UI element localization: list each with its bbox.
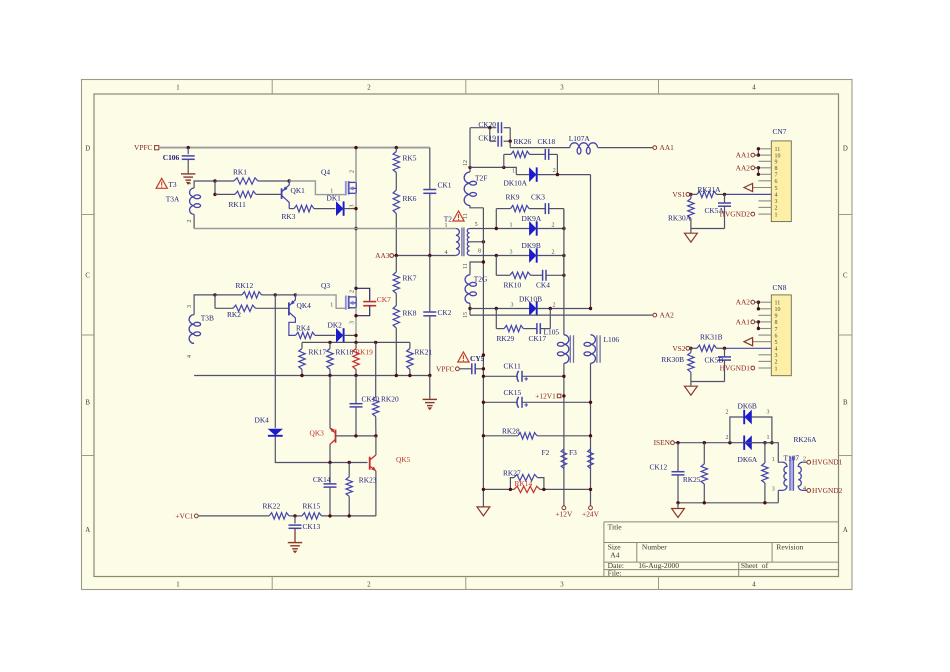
svg-text:VS1: VS1 [672, 190, 685, 199]
svg-text:2: 2 [553, 302, 556, 308]
wire T3A top [194, 181, 215, 188]
svg-text:2: 2 [726, 435, 729, 441]
inductor L107A [570, 143, 598, 148]
capacitor CK11 [483, 375, 517, 377]
svg-text:5: 5 [775, 340, 778, 346]
svg-text:F2: F2 [542, 448, 550, 457]
svg-text:1: 1 [512, 169, 515, 175]
svg-text:Revision: Revision [776, 542, 803, 551]
node QK3 collector [328, 461, 331, 464]
svg-text:7: 7 [775, 173, 778, 179]
svg-text:RK20: RK20 [381, 394, 399, 403]
node DK6A cathode RK26A [763, 441, 766, 444]
transformer T2 secondary [467, 229, 469, 256]
svg-text:Title: Title [608, 523, 623, 532]
node CK11 right [562, 375, 565, 378]
node RK18 bottom [328, 374, 331, 377]
resistor RK25 [703, 443, 705, 464]
svg-text:A4: A4 [610, 551, 619, 560]
node DK6B branch [728, 441, 731, 444]
node DK9A anode snubber [495, 227, 498, 230]
svg-text:1: 1 [510, 223, 513, 229]
wire Q4 source chain [355, 193, 357, 296]
snubber RK29 CK17 [495, 309, 497, 329]
svg-text:RK30B: RK30B [661, 355, 684, 364]
wire ISEN bottom rail [678, 502, 778, 504]
port HVGND1 T107 [807, 460, 811, 464]
wire QK5 emitter down [375, 471, 377, 516]
svg-text:+12V1: +12V1 [535, 391, 556, 400]
node CK15 left [482, 401, 485, 404]
port +VC1 [194, 514, 198, 518]
svg-text:C: C [843, 273, 848, 280]
wire ground rail [194, 375, 430, 377]
node bus mid [482, 353, 485, 356]
capacitor CK1 [429, 148, 431, 190]
warning triangle T2 [453, 211, 464, 221]
svg-text:1: 1 [187, 182, 193, 185]
wire CN8 tie 8-7 [757, 322, 759, 329]
diode DK9A [470, 228, 530, 230]
svg-text:RK6: RK6 [403, 194, 417, 203]
wire AA3 [394, 255, 456, 257]
svg-text:Number: Number [642, 542, 667, 551]
resistor RK14 [514, 486, 540, 492]
wire DK4 branch [274, 295, 276, 428]
ground ISEN [677, 503, 679, 509]
svg-text:1: 1 [330, 303, 333, 309]
wire CK5B bottom [691, 381, 725, 383]
svg-text:AA1: AA1 [736, 317, 751, 326]
svg-text:CK10: CK10 [362, 394, 380, 403]
wire CK20 left [469, 128, 471, 168]
svg-text:RK17: RK17 [309, 347, 327, 356]
svg-text:Q4: Q4 [321, 168, 330, 177]
svg-text:3: 3 [187, 305, 193, 308]
node RK8 bottom [395, 374, 398, 377]
svg-text:9: 9 [775, 160, 778, 166]
svg-text:AA3: AA3 [375, 251, 390, 260]
svg-text:T3B: T3B [201, 314, 214, 323]
svg-text:1: 1 [176, 84, 179, 91]
resistor RK22 [269, 513, 289, 519]
svg-text:RK25: RK25 [683, 475, 701, 484]
svg-text:RK14: RK14 [515, 479, 533, 488]
port AA2 out [653, 313, 657, 317]
svg-text:4: 4 [803, 486, 806, 492]
svg-text:2: 2 [553, 168, 556, 174]
node RK17 bottom [300, 374, 303, 377]
node CK19 tap [488, 126, 491, 129]
transformer T2 primary [456, 229, 459, 256]
svg-text:1: 1 [176, 581, 179, 588]
node VS2 [689, 347, 692, 350]
node RK5 top [395, 146, 398, 149]
wire out common row [483, 488, 510, 490]
svg-text:9: 9 [775, 314, 778, 320]
diode DK4 [269, 429, 282, 435]
svg-text:12: 12 [463, 160, 469, 166]
port AA2 CN7 [751, 166, 755, 170]
node RK21 bottom [408, 374, 411, 377]
node row v24 [589, 488, 592, 491]
port AA1 out [653, 146, 657, 150]
svg-text:T107: T107 [784, 453, 800, 462]
svg-text:DK4: DK4 [255, 415, 270, 424]
svg-text:T3: T3 [168, 180, 177, 189]
svg-text:CK1: CK1 [438, 180, 452, 189]
wire T2F pin11 [470, 206, 483, 208]
port AA2 CN8 [751, 300, 755, 304]
node DK1 cathode [354, 207, 357, 210]
svg-text:B: B [843, 400, 848, 407]
diode DK10B [470, 308, 530, 310]
resistor RK6 [393, 190, 399, 214]
svg-text:2: 2 [350, 290, 356, 293]
svg-text:3: 3 [510, 249, 513, 255]
resistor RK12 [215, 294, 242, 296]
transistor Q3 [345, 296, 347, 310]
svg-text:RK30A: RK30A [668, 213, 692, 222]
svg-text:RK22: RK22 [263, 501, 281, 510]
node RK1 left [213, 179, 216, 182]
svg-text:+VC1: +VC1 [175, 511, 193, 520]
svg-text:8: 8 [478, 249, 481, 255]
node DK2 cathode [354, 334, 357, 337]
arrow CN7 pin5 [744, 183, 753, 191]
node RK7 top [395, 254, 398, 257]
svg-text:RK4: RK4 [296, 324, 310, 333]
svg-text:1: 1 [772, 457, 775, 463]
node Q4 drain rail [354, 146, 357, 149]
wire tap2 [214, 295, 216, 308]
svg-text:3: 3 [350, 321, 356, 324]
node RK11 left [213, 193, 216, 196]
svg-text:DK6B: DK6B [738, 401, 757, 410]
svg-text:CK18: CK18 [538, 137, 556, 146]
svg-text:CK11: CK11 [504, 361, 522, 370]
svg-text:2: 2 [187, 220, 193, 223]
svg-text:11: 11 [463, 263, 469, 269]
svg-text:VS2: VS2 [672, 344, 685, 353]
node DK10B out [589, 307, 592, 310]
node QK3 base RK20 [374, 434, 377, 437]
ground return bus [477, 507, 490, 516]
svg-text:15: 15 [463, 312, 469, 318]
svg-text:4: 4 [775, 193, 778, 199]
node RK26A bottom [763, 501, 766, 504]
svg-text:A: A [843, 527, 848, 534]
node DK4 branch [274, 293, 277, 296]
port HVGND1 CN8 [751, 366, 755, 370]
svg-text:RK19: RK19 [355, 347, 373, 356]
ground VS1 [690, 229, 692, 234]
capacitor CK5A [724, 194, 726, 202]
resistor RK30B [690, 348, 692, 352]
svg-text:3: 3 [560, 581, 564, 588]
svg-text:3: 3 [560, 84, 564, 91]
resistor RK28 [483, 435, 517, 437]
svg-text:2: 2 [350, 170, 356, 173]
transistor QK4 [288, 302, 290, 315]
wire return bus [482, 208, 484, 507]
svg-text:2: 2 [552, 223, 555, 229]
svg-text:of: of [762, 561, 769, 570]
svg-text:3: 3 [350, 205, 356, 208]
svg-text:QK4: QK4 [297, 301, 312, 310]
wire T3B top [194, 295, 215, 315]
wire T2G pin11 [470, 262, 483, 275]
resistor RK31A [690, 193, 697, 195]
wire bank top rail [302, 341, 410, 343]
svg-text:2: 2 [367, 84, 371, 91]
node CK1 bottom [428, 254, 431, 257]
svg-text:AA2: AA2 [736, 298, 751, 307]
node RK28 left [482, 434, 485, 437]
wire ISEN row [674, 442, 744, 444]
resistor RK21 [409, 342, 411, 348]
svg-text:L107A: L107A [569, 134, 591, 143]
svg-text:11: 11 [775, 147, 781, 153]
wire CN7 tie 11-10 [757, 149, 759, 155]
capacitor CY5 [459, 368, 471, 370]
port HVGND2 CN7 [751, 212, 755, 216]
wire AA1 out [598, 147, 653, 149]
resistor RK27 [510, 478, 514, 490]
transistor QK1 [281, 188, 283, 199]
port VS1 [686, 193, 690, 197]
ground C106 [181, 173, 195, 175]
svg-text:+12V: +12V [555, 510, 573, 519]
wire QK3 emitter up [329, 376, 331, 429]
arrow CN8 pin5 [744, 338, 753, 346]
inductor T3B [189, 315, 194, 344]
resistor RK30A [690, 194, 692, 198]
capacitor CK5B [724, 348, 726, 356]
svg-text:D: D [85, 146, 90, 153]
svg-text:RK18: RK18 [336, 347, 354, 356]
svg-text:7: 7 [775, 327, 778, 333]
svg-text:RK11: RK11 [229, 200, 247, 209]
node C106 junction [187, 146, 190, 149]
resistor RK1 [215, 180, 234, 182]
svg-text:6: 6 [775, 333, 778, 339]
svg-text:DK9B: DK9B [522, 241, 541, 250]
svg-text:+24V: +24V [582, 510, 600, 519]
svg-text:1: 1 [445, 223, 448, 229]
svg-text:4: 4 [445, 250, 448, 256]
warning triangle T3 [156, 178, 167, 188]
svg-text:CK20: CK20 [478, 120, 496, 129]
svg-text:2: 2 [775, 360, 778, 366]
capacitor CK10 [355, 376, 357, 404]
svg-text:QK3: QK3 [310, 428, 325, 437]
node CK14 bottom [328, 514, 331, 517]
svg-text:RK12: RK12 [236, 281, 254, 290]
svg-text:8: 8 [775, 320, 778, 326]
svg-text:RK5: RK5 [403, 154, 417, 163]
svg-text:C106: C106 [163, 153, 180, 162]
node DK10A cathode snubber [556, 173, 559, 176]
node Q4 source rail [354, 227, 357, 230]
node RK25 top [703, 441, 706, 444]
svg-text:2: 2 [803, 456, 806, 462]
svg-text:DK10A: DK10A [504, 179, 528, 188]
capacitor CK7 [356, 288, 370, 301]
svg-text:File:: File: [608, 569, 622, 578]
svg-text:11: 11 [463, 213, 469, 219]
svg-text:CK19: CK19 [478, 133, 496, 142]
inductor T3A [190, 188, 195, 214]
wire QK3 collector down [329, 444, 331, 462]
port AA3 [390, 254, 394, 258]
node CK12 top [676, 441, 679, 444]
svg-text:AA1: AA1 [736, 151, 751, 160]
svg-text:2: 2 [552, 249, 555, 255]
wire primary rail [193, 214, 195, 228]
node center tap [482, 240, 485, 243]
transformer T2 core [461, 228, 463, 257]
svg-text:3: 3 [511, 302, 514, 308]
svg-text:8: 8 [775, 166, 778, 172]
ground VS2 [690, 382, 692, 387]
node CK11 left [482, 375, 485, 378]
choke L106 [591, 335, 596, 364]
node DK10B cathode snubber [549, 307, 552, 310]
resistor RK31B [690, 347, 697, 349]
snubber RK26 CK18 [503, 154, 505, 168]
svg-text:RK26A: RK26A [794, 435, 818, 444]
svg-text:DK10B: DK10B [519, 294, 542, 303]
svg-text:4: 4 [775, 347, 778, 353]
wire T2F top [469, 167, 471, 172]
svg-text:2: 2 [726, 410, 729, 416]
capacitor CK14 [329, 463, 331, 484]
svg-text:CK14: CK14 [313, 475, 331, 484]
wire +VC1 [198, 515, 269, 517]
svg-text:L105: L105 [544, 327, 560, 336]
svg-text:2: 2 [367, 581, 371, 588]
svg-text:10: 10 [775, 307, 781, 313]
wire RK12-QK4 [275, 294, 295, 296]
wire QK5 collector up [375, 436, 377, 455]
node snubberA left [502, 166, 505, 169]
transistor QK3 [335, 430, 337, 443]
svg-text:4: 4 [752, 84, 756, 91]
svg-text:T2F: T2F [475, 173, 487, 182]
wire Q4 gate lead [289, 181, 346, 195]
port VPFC [155, 146, 159, 150]
port VPFC2 [456, 367, 460, 371]
svg-text:1: 1 [775, 212, 778, 218]
svg-text:CK7: CK7 [377, 295, 391, 304]
svg-text:RK3: RK3 [282, 212, 296, 221]
wire node A row [470, 167, 516, 174]
svg-text:3: 3 [775, 353, 778, 359]
capacitor CK12 [677, 443, 679, 472]
svg-text:A: A [85, 527, 90, 534]
svg-text:T2G: T2G [474, 274, 488, 283]
diode DK6A [745, 436, 751, 449]
svg-text:4: 4 [752, 581, 756, 588]
node RK10 right [562, 274, 565, 277]
resistor RK23 [348, 463, 350, 477]
node RK18 top [328, 341, 331, 344]
svg-text:CK15: CK15 [504, 388, 522, 397]
capacitor CK20 [470, 127, 496, 129]
svg-text:L106: L106 [604, 335, 620, 344]
diode DK10A [516, 174, 529, 176]
svg-text:1: 1 [330, 188, 333, 194]
node RK27 right [542, 488, 545, 491]
wire CN7 tie 8-7 [757, 168, 759, 175]
svg-text:RK28: RK28 [502, 426, 520, 435]
diode DK9B [470, 255, 530, 257]
node RK20 branch [374, 341, 377, 344]
svg-text:HVGND1: HVGND1 [812, 458, 843, 467]
node T107 branch [770, 441, 773, 444]
port +12V1 [557, 394, 561, 398]
svg-text:CN8: CN8 [773, 283, 787, 292]
resistor RK7 [395, 256, 397, 273]
diode DK2 [336, 329, 342, 342]
svg-text:AA1: AA1 [660, 143, 675, 152]
resistor RK26A [764, 443, 766, 463]
svg-text:CK2: CK2 [438, 308, 452, 317]
port HVGND2 T107 [807, 489, 811, 493]
svg-text:QK1: QK1 [291, 186, 306, 195]
svg-text:RK31B: RK31B [700, 333, 723, 342]
port +12V [562, 506, 566, 510]
svg-text:CN7: CN7 [773, 127, 787, 136]
transistor QK5 [369, 457, 371, 470]
resistor RK19 [355, 342, 357, 348]
port AA1 CN7 [751, 153, 755, 157]
svg-text:5: 5 [475, 222, 478, 228]
svg-text:F3: F3 [569, 448, 577, 457]
wire tap [214, 181, 216, 194]
resistor RK18 [329, 342, 331, 348]
node DK10B anode T2G [468, 307, 471, 310]
snubber RK9 CK3 [495, 209, 497, 229]
svg-text:RK21: RK21 [415, 347, 433, 356]
port ISEN [671, 441, 675, 445]
svg-text:T2: T2 [444, 214, 453, 223]
fuse F2 [561, 449, 567, 469]
diode DK1 [336, 202, 342, 215]
node RK12 left [213, 293, 216, 296]
svg-text:16-Aug-2000: 16-Aug-2000 [638, 561, 679, 570]
warning triangle CY5 [458, 352, 469, 362]
svg-text:VPFC: VPFC [436, 364, 455, 373]
wire RK5-RK6 [395, 173, 397, 191]
port +24V [589, 506, 593, 510]
svg-text:RK2: RK2 [227, 310, 241, 319]
node QK1 collector/RK1 [288, 179, 291, 182]
svg-text:CK3: CK3 [531, 193, 545, 202]
node RK19 top [354, 341, 357, 344]
node RK28 right [589, 434, 592, 437]
node CK13 top [293, 514, 296, 517]
svg-text:RK31A: RK31A [698, 185, 722, 194]
svg-text:2: 2 [775, 206, 778, 212]
node CK12 bottom [676, 501, 679, 504]
svg-text:RK1: RK1 [233, 167, 247, 176]
node CK7 bottom [354, 314, 357, 317]
node row va [482, 488, 485, 491]
node Q3 drain [354, 287, 357, 290]
svg-text:RK29: RK29 [497, 334, 515, 343]
